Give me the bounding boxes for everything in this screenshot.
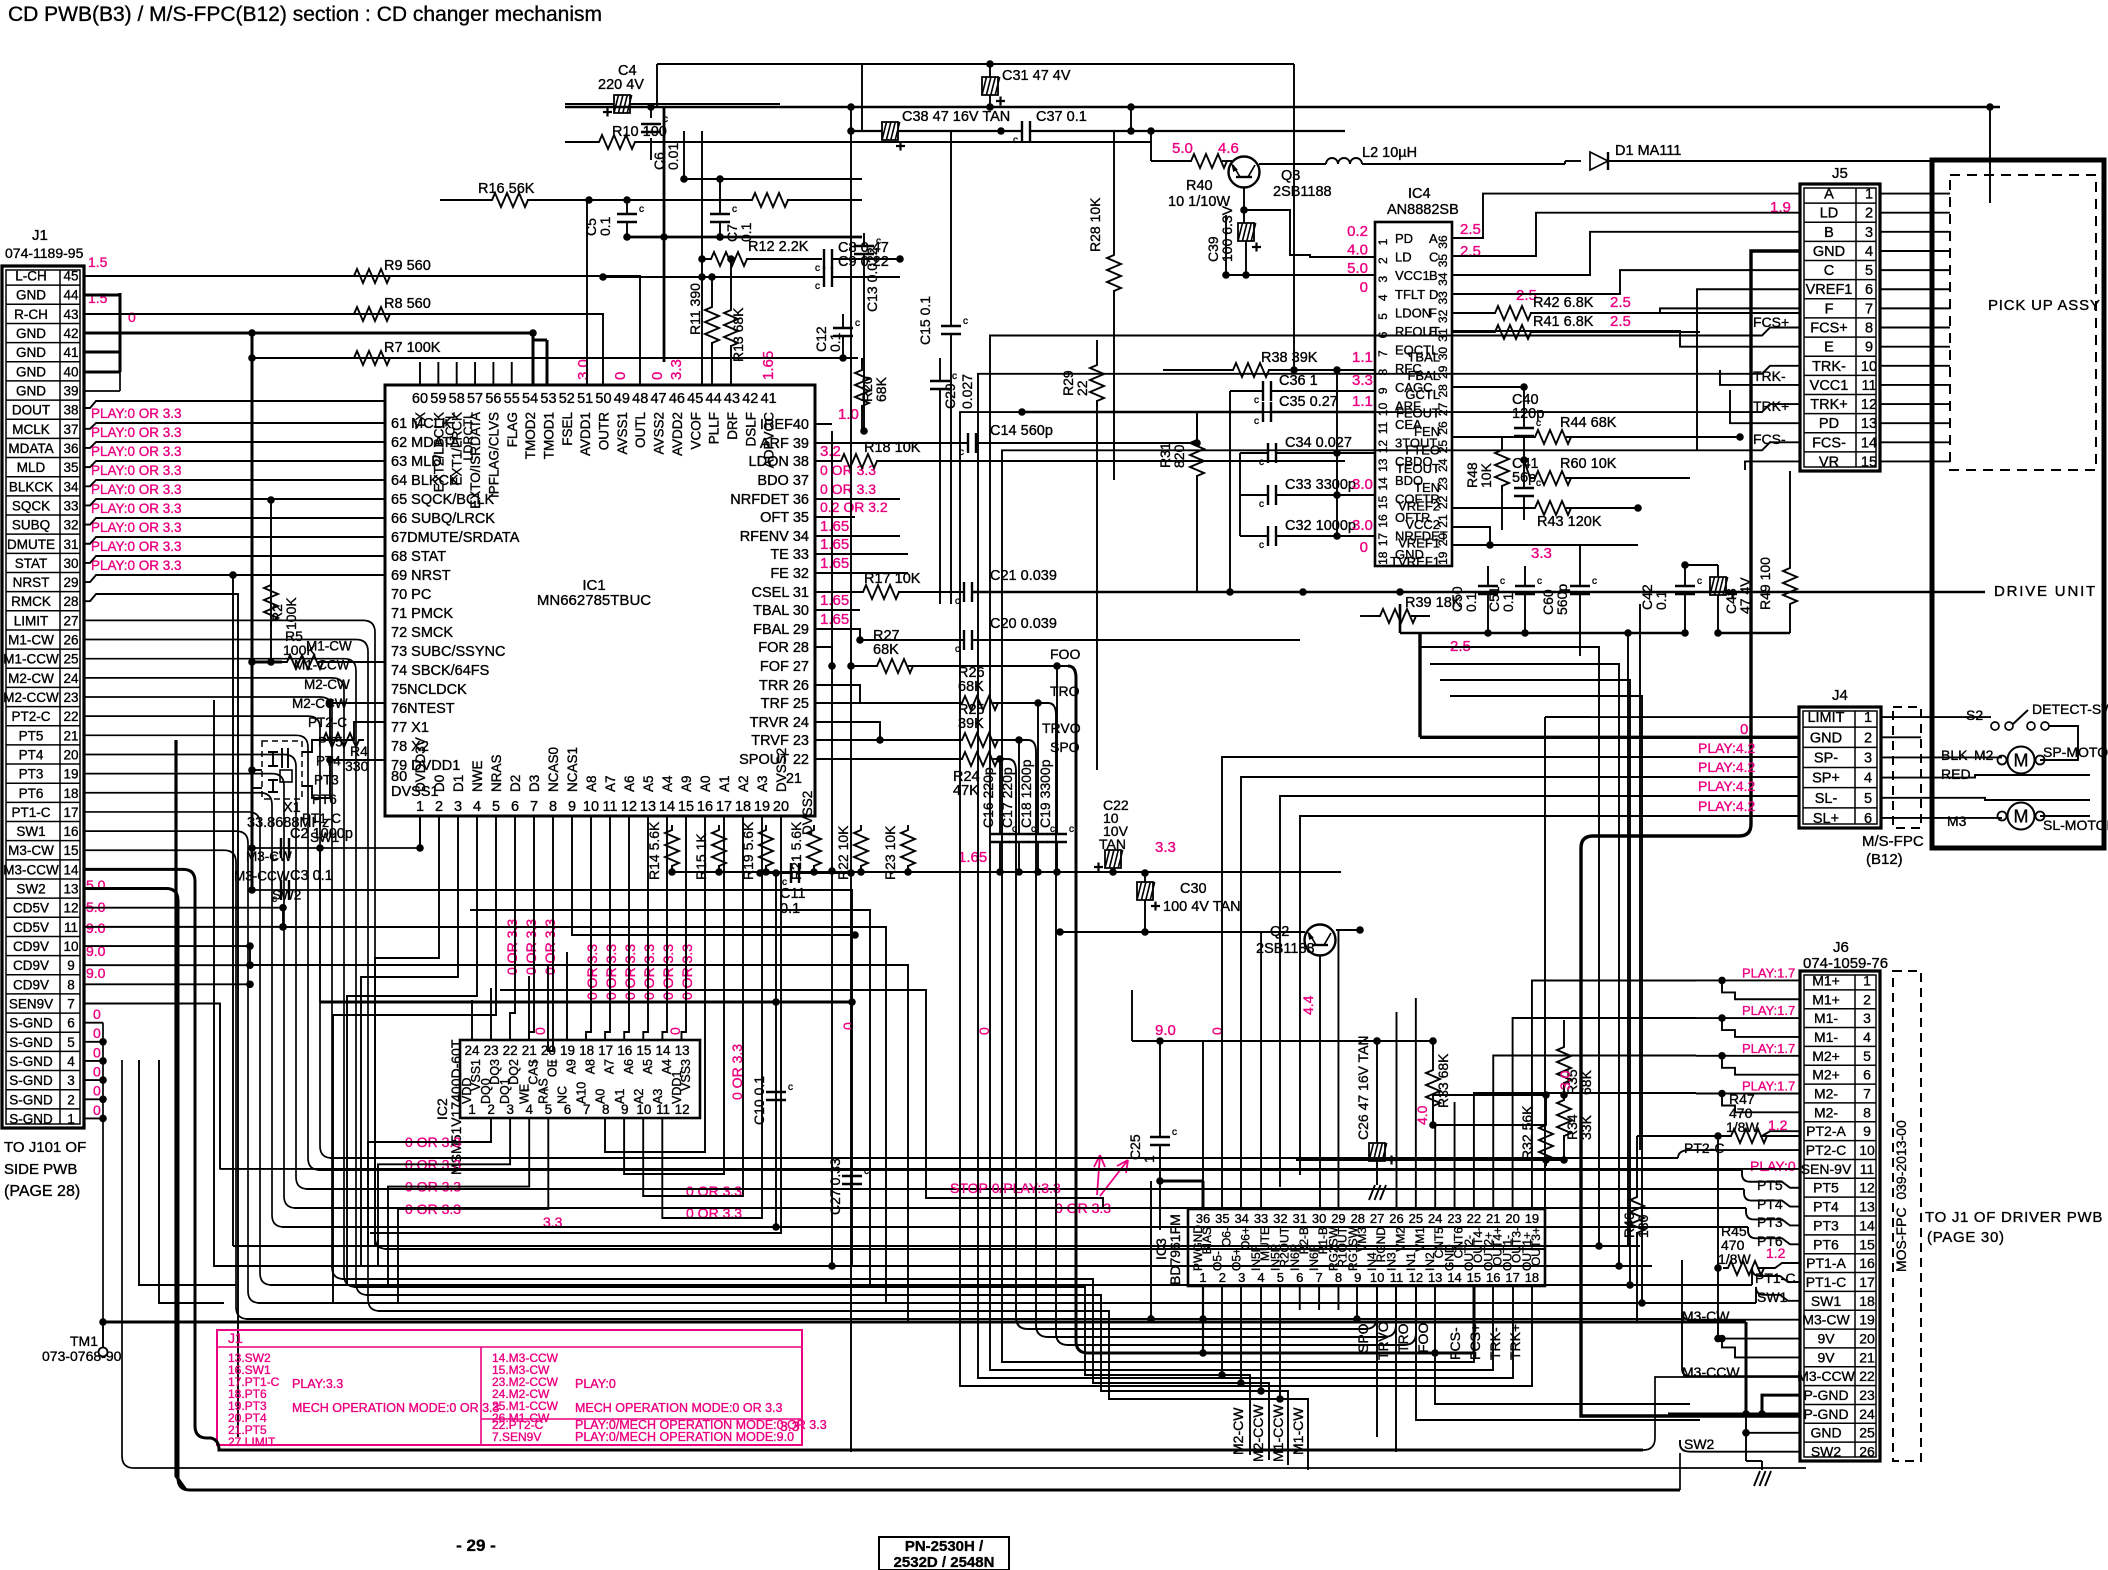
svg-text:c: c [639,204,644,215]
svg-text:SL-: SL- [1815,791,1838,807]
svg-text:4: 4 [1864,771,1872,787]
svg-text:12: 12 [1859,1180,1875,1196]
svg-text:1: 1 [1863,972,1871,988]
wires J1 power rows [84,907,283,909]
svg-text:17: 17 [598,1043,613,1058]
svg-text:50: 50 [595,391,611,407]
svg-text:C33 3300p: C33 3300p [1285,477,1356,493]
wire stair right2 [1430,664,1619,1266]
svg-text:WE: WE [517,1084,531,1104]
svg-text:19: 19 [560,1043,575,1058]
svg-text:O6-: O6- [1219,1227,1233,1247]
svg-text:4: 4 [1257,1270,1264,1285]
svg-text:SW1: SW1 [310,830,339,845]
svg-text:S-GND: S-GND [9,1111,53,1126]
svg-text:DOUT: DOUT [12,403,50,418]
svg-text:A9: A9 [679,775,694,792]
svg-text:C18 1200p: C18 1200p [1018,759,1034,828]
svg-text:PLAY:0: PLAY:0 [575,1377,616,1391]
svg-text:MECH OPERATION MODE:0 OR 3.3: MECH OPERATION MODE:0 OR 3.3 [575,1401,782,1415]
wire net LIMIT run [385,1248,1545,1250]
svg-text:18: 18 [63,786,78,801]
svg-text:SW1: SW1 [1811,1293,1842,1309]
svg-text:3: 3 [1376,276,1390,283]
IC U2 IC2 box [460,1040,700,1118]
svg-text:A5: A5 [641,775,656,792]
svg-text:R38 39K: R38 39K [1261,350,1318,366]
svg-text:CD5V: CD5V [13,901,49,916]
svg-text:0: 0 [840,1022,856,1030]
svg-text:0: 0 [1740,721,1748,738]
svg-text:68K: 68K [873,376,889,402]
wire J6 PGND23 [1762,1395,1800,1414]
wire R9 net [84,276,640,385]
svg-text:C21 0.039: C21 0.039 [990,568,1057,584]
wire J4 GND [1420,736,1799,739]
svg-text:44: 44 [706,391,722,407]
svg-text:M1-: M1- [1814,1029,1838,1045]
svg-text:49: 49 [614,391,630,407]
svg-text:0.027: 0.027 [959,374,975,409]
svg-text:3: 3 [67,1073,75,1088]
svg-text:39K: 39K [958,716,984,732]
svg-text:0: 0 [612,372,629,380]
wires IC1 data bus to IC2 [375,816,439,1246]
wire M3-CW to IC3 pin9 [1356,1286,1358,1319]
svg-text:R8 560: R8 560 [384,296,431,312]
svg-text:48: 48 [632,391,648,407]
svg-text:IC4: IC4 [1408,186,1431,202]
svg-text:C26 47 16V TAN: C26 47 16V TAN [1355,1035,1371,1140]
svg-text:26: 26 [63,633,78,648]
svg-text:R41 6.8K: R41 6.8K [1533,314,1594,330]
svg-text:LDRCTL: LDRCTL [462,412,476,461]
svg-text:0.2: 0.2 [1347,223,1368,240]
svg-text:NCAS0: NCAS0 [546,747,561,792]
svg-text:RFENV 34: RFENV 34 [740,529,809,545]
svg-text:OFT 35: OFT 35 [760,510,809,526]
svg-text:51: 51 [577,391,593,407]
svg-text:SL+: SL+ [1813,811,1839,827]
svg-text:IN2: IN2 [1423,1252,1437,1271]
svg-text:70 PC: 70 PC [391,587,431,603]
svg-text:9: 9 [1354,1270,1361,1285]
svg-text:F: F [1825,301,1834,317]
svg-text:4: 4 [1865,244,1873,260]
svg-text:21: 21 [1859,1349,1875,1365]
svg-text:J1: J1 [228,1330,243,1346]
wire corner y890 [320,890,852,1266]
svg-text:4.0: 4.0 [1347,242,1368,259]
svg-text:S-GND: S-GND [9,1016,53,1031]
svg-text:M/S-FPC: M/S-FPC [1862,833,1924,850]
svg-text:VM1: VM1 [1413,1227,1427,1252]
svg-text:36: 36 [1196,1211,1210,1226]
svg-text:21: 21 [1486,1211,1500,1226]
svg-text:FCS-: FCS- [1447,1327,1463,1360]
wire X1 pin77 [329,700,331,741]
svg-text:AVDD1: AVDD1 [578,412,593,456]
svg-text:68 STAT: 68 STAT [391,549,446,565]
svg-text:33: 33 [1436,291,1450,305]
wire R8 net [84,314,603,385]
svg-text:47: 47 [650,391,666,407]
svg-text:FE 32: FE 32 [770,566,809,582]
svg-text:c: c [1013,135,1018,146]
svg-text:M3-CW: M3-CW [1802,1312,1850,1328]
svg-text:24: 24 [1859,1406,1875,1422]
svg-text:M1-CW: M1-CW [1290,1407,1306,1455]
svg-text:1.65: 1.65 [820,555,849,572]
capacitor C6 0.01 [641,124,661,132]
svg-text:5: 5 [1376,313,1390,320]
wires IC1 addr bus [572,816,855,935]
svg-text:3: 3 [1865,225,1873,241]
svg-text:45: 45 [687,391,703,407]
wire v702 [701,131,703,385]
svg-text:M2+: M2+ [1812,1048,1840,1064]
svg-text:D0: D0 [432,775,447,792]
svg-text:- 29 -: - 29 - [456,1536,496,1555]
svg-text:TRK+: TRK+ [1810,397,1847,413]
svg-text:9: 9 [1863,1123,1871,1139]
svg-text:8: 8 [1863,1104,1871,1120]
svg-text:R39 18K: R39 18K [1405,595,1462,611]
svg-text:R11 390: R11 390 [687,283,703,335]
svg-text:VCC2: VCC2 [1405,517,1440,532]
svg-text:9: 9 [568,799,576,815]
svg-text:NRST: NRST [13,575,50,590]
wire v776 [775,873,777,1227]
svg-text:AVDD2: AVDD2 [670,412,685,456]
svg-text:A0: A0 [698,775,713,792]
svg-text:M1-: M1- [1814,1010,1838,1026]
wire net PT1-C run [270,1284,1752,1286]
svg-text:SEN-9V: SEN-9V [1801,1161,1852,1177]
svg-text:PT4: PT4 [1813,1199,1839,1215]
svg-text:44: 44 [63,288,79,303]
svg-text:C31 47 4V: C31 47 4V [1002,68,1071,84]
svg-text:PD: PD [1395,231,1413,246]
svg-text:11: 11 [1376,421,1390,434]
svg-text:41: 41 [63,345,78,360]
svg-text:68K: 68K [958,679,984,695]
svg-text:B: B [1824,225,1834,241]
svg-text:2.5: 2.5 [1610,313,1631,330]
svg-text:PLAY:0 OR 3.3: PLAY:0 OR 3.3 [91,520,182,535]
svg-text:TRVF 23: TRVF 23 [751,733,809,749]
svg-text:1: 1 [1199,1270,1206,1285]
svg-text:0.1: 0.1 [1463,592,1479,612]
svg-text:3.3: 3.3 [1155,839,1176,856]
svg-text:15: 15 [678,799,694,815]
svg-text:8: 8 [1865,321,1873,337]
svg-text:ARF 39: ARF 39 [760,436,809,452]
svg-text:IPFLAG/CLVS: IPFLAG/CLVS [486,412,501,498]
motor M3 SL-MOTOR [2008,803,2035,830]
svg-text:FOR 28: FOR 28 [758,640,809,656]
svg-text:35: 35 [63,460,78,475]
svg-text:7: 7 [1865,301,1873,317]
wires IC1 right stubs [815,498,900,500]
svg-text:C10 0.1: C10 0.1 [751,1076,767,1125]
wire 9v line [1131,990,1133,1041]
svg-text:VREF2: VREF2 [1398,498,1440,513]
svg-text:PT3: PT3 [19,767,44,782]
svg-text:M2-CW: M2-CW [8,671,54,686]
wire net FCS- [1002,442,1800,1362]
svg-text:C38 47 16V TAN: C38 47 16V TAN [902,109,1010,125]
svg-text:25: 25 [63,652,78,667]
svg-text:4.6: 4.6 [1218,140,1239,157]
wire corner y965 [250,965,908,1322]
svg-text:FSEL: FSEL [560,412,575,446]
svg-text:20: 20 [1505,1211,1519,1226]
wires IC3 top pins [1202,1041,1204,1209]
svg-text:4: 4 [67,1054,75,1069]
svg-text:S-GND: S-GND [9,1092,53,1107]
svg-text:60: 60 [412,391,428,407]
svg-text:9V: 9V [1817,1331,1835,1347]
svg-text:c: c [1592,576,1597,587]
wire v1628 [1627,633,1629,1246]
svg-text:SP+: SP+ [1812,771,1840,787]
svg-text:3: 3 [1863,1010,1871,1026]
svg-text:C19 3300p: C19 3300p [1037,759,1053,828]
svg-text:1: 1 [416,799,424,815]
svg-text:PLAY:0 OR 3.3: PLAY:0 OR 3.3 [91,406,182,421]
svg-text:SPOUT 22: SPOUT 22 [739,752,809,768]
svg-text:22: 22 [1074,380,1090,396]
svg-text:c: c [1697,576,1702,587]
svg-text:66 SUBQ/LRCK: 66 SUBQ/LRCK [391,511,495,527]
svg-text:TRR 26: TRR 26 [759,678,809,694]
wires IC3 bottom stubs [1299,1286,1301,1310]
svg-text:17: 17 [1859,1274,1875,1290]
svg-text:0 OR 3.3: 0 OR 3.3 [622,944,638,1000]
svg-text:Q3: Q3 [1281,168,1300,184]
svg-text:M1-CCW: M1-CCW [294,658,350,673]
svg-text:26: 26 [1859,1444,1875,1460]
svg-text:27: 27 [1436,402,1450,416]
svg-text:10K: 10K [1478,462,1494,488]
svg-text:9: 9 [1865,340,1873,356]
svg-text:CSEL 31: CSEL 31 [752,585,810,601]
wire net M1-CW run [378,1311,1308,1470]
svg-text:PT3: PT3 [1757,1214,1783,1230]
svg-text:M2-CW: M2-CW [1230,1407,1246,1455]
svg-text:c: c [1259,540,1264,551]
svg-text:PT2-C: PT2-C [1806,1142,1846,1158]
svg-text:c: c [876,236,881,247]
svg-text:A4: A4 [660,775,675,792]
svg-text:PLAY:0/MECH OPERATION MODE:9.0: PLAY:0/MECH OPERATION MODE:9.0 [575,1430,794,1444]
wire v851 [850,107,852,1452]
svg-text:15: 15 [1861,454,1877,470]
capacitor C2 1000p [252,847,420,849]
svg-text:100 6.3V: 100 6.3V [1219,205,1235,262]
svg-text:C16 220p: C16 220p [980,767,996,828]
wire bold 3.3 y1002 [320,1001,852,1004]
svg-text:FCS-: FCS- [1753,431,1786,447]
svg-text:7: 7 [1863,1086,1871,1102]
svg-text:1.65: 1.65 [820,518,849,535]
svg-text:PN-2530H /: PN-2530H / [905,1538,984,1555]
wire 1.65 bus [672,871,1341,873]
svg-text:SP-: SP- [1814,750,1838,766]
svg-text:24: 24 [63,671,79,686]
svg-text:14: 14 [63,862,79,877]
svg-text:3.0: 3.0 [1557,1070,1573,1090]
svg-text:M2: M2 [1974,747,1994,763]
svg-text:C36 1: C36 1 [1279,373,1318,389]
svg-text:0: 0 [1360,279,1368,296]
svg-text:TRF 25: TRF 25 [761,696,809,712]
wire corner y927 [283,927,886,1303]
wire net SPO [1008,759,1377,1329]
wire net PT4 run [306,1188,1744,1190]
svg-text:2: 2 [67,1092,75,1107]
svg-text:19: 19 [63,767,78,782]
wire net M3-CW run [246,1318,1682,1320]
svg-text:M2-CCW: M2-CCW [3,690,59,705]
svg-text:PT1-C: PT1-C [1806,1274,1846,1290]
svg-text:c: c [788,1082,793,1093]
svg-text:FCS+: FCS+ [1810,321,1847,337]
svg-text:TE 33: TE 33 [770,547,809,563]
svg-text:OUTR: OUTR [597,412,612,450]
svg-text:R16 56K: R16 56K [478,181,535,197]
svg-text:TRK-: TRK- [1487,1327,1503,1360]
svg-text:4: 4 [473,799,481,815]
wire left stair4 [159,1060,224,1303]
svg-text:0 OR 3.3: 0 OR 3.3 [641,944,657,1000]
drive unit box [1932,160,2104,848]
diode D1 MA111 [1590,152,1608,170]
wire J5 PD [1730,390,1800,423]
IC U1 IC1 box [385,385,815,816]
svg-text:18: 18 [1525,1270,1539,1285]
svg-text:J6: J6 [1833,939,1849,956]
svg-text:PT2-A: PT2-A [1806,1123,1846,1139]
wire bold y237 [627,236,862,239]
svg-text:A1: A1 [717,775,732,792]
svg-text:DRF: DRF [725,412,740,440]
svg-text:PT4: PT4 [19,747,44,762]
svg-text:C13 0.022: C13 0.022 [864,247,880,312]
svg-text:1.65: 1.65 [820,592,849,609]
svg-text:PT3: PT3 [314,773,339,788]
svg-text:SW2: SW2 [1811,1444,1842,1460]
svg-text:S-GND: S-GND [9,1035,53,1050]
IC U3 IC3 box [1188,1209,1545,1286]
svg-text:M1+: M1+ [1812,991,1840,1007]
svg-text:c: c [952,371,957,382]
svg-text:12: 12 [1409,1270,1423,1285]
svg-text:C34 0.027: C34 0.027 [1285,435,1352,451]
svg-text:IN3: IN3 [1385,1252,1399,1271]
svg-text:1.65: 1.65 [958,849,987,866]
svg-text:P-GND: P-GND [1803,1406,1848,1422]
svg-text:C14 560p: C14 560p [990,423,1053,439]
svg-text:21: 21 [786,771,802,787]
svg-text:A7: A7 [603,1059,617,1074]
motor M2 SP-MOTOR [2008,747,2035,774]
svg-text:SW2: SW2 [272,888,301,903]
svg-text:c: c [1254,416,1259,427]
svg-text:S2: S2 [1966,707,1983,723]
svg-text:C35 0.27: C35 0.27 [1279,394,1338,410]
svg-text:c: c [1069,824,1074,835]
svg-text:4.4: 4.4 [1300,995,1316,1015]
svg-text:23: 23 [63,690,78,705]
svg-text:63 MLD: 63 MLD [391,454,442,470]
svg-text:33: 33 [1254,1211,1268,1226]
svg-text:22: 22 [1467,1211,1481,1226]
svg-text:9.0: 9.0 [86,965,106,981]
svg-text:15: 15 [1467,1270,1481,1285]
svg-text:100K: 100K [283,597,299,630]
svg-text:C37 0.1: C37 0.1 [1036,109,1087,125]
svg-text:STAT: STAT [15,556,48,571]
svg-text:24: 24 [1428,1211,1442,1226]
svg-text:c: c [1500,576,1505,587]
svg-text:SEN9V: SEN9V [9,996,53,1011]
wire J5 VR [1745,461,1800,470]
svg-text:8: 8 [549,799,557,815]
svg-text:M2-: M2- [1814,1086,1838,1102]
svg-text:1: 1 [1865,187,1873,203]
svg-text:VREF1: VREF1 [1806,282,1853,298]
svg-text:19: 19 [1859,1312,1875,1328]
svg-text:45: 45 [63,269,78,284]
svg-text:37: 37 [63,422,78,437]
svg-text:c: c [855,318,860,329]
svg-text:43: 43 [724,391,740,407]
wire v862 [861,64,863,131]
wire vref line [1452,527,1490,545]
svg-text:M1+: M1+ [1812,972,1840,988]
svg-text:IN1: IN1 [1404,1252,1418,1271]
svg-text:MSM51V17400D-60T: MSM51V17400D-60T [448,1039,464,1175]
svg-text:AVSS1: AVSS1 [615,412,630,455]
svg-text:c: c [1259,457,1264,468]
svg-text:R28 10K: R28 10K [1087,197,1103,252]
wire bold gnd bus [103,1321,1746,1324]
svg-text:D1 MA111: D1 MA111 [1615,143,1681,159]
svg-text:S-GND: S-GND [9,1073,53,1088]
svg-text:TRK-: TRK- [1812,359,1846,375]
svg-text:PLAY:0 OR 3.3: PLAY:0 OR 3.3 [91,539,182,554]
svg-text:9: 9 [67,958,75,973]
svg-text:TO J101 OF: TO J101 OF [4,1139,86,1156]
svg-text:21: 21 [63,728,78,743]
resistor R5 100K [282,655,328,669]
svg-text:C30: C30 [1180,881,1207,897]
svg-text:23: 23 [1447,1211,1461,1226]
svg-text:PICK UP ASSY: PICK UP ASSY [1988,297,2101,314]
svg-text:71 PMCK: 71 PMCK [391,606,453,622]
svg-text:5.0: 5.0 [86,877,106,893]
svg-text:10: 10 [1861,359,1877,375]
svg-text:0.1: 0.1 [1500,592,1516,612]
svg-text:55: 55 [504,391,520,407]
wire net PT2-C run [330,1157,1678,1159]
svg-text:15: 15 [63,843,78,858]
svg-text:6: 6 [511,799,519,815]
wire J5 A [1452,194,1800,238]
svg-text:IREF40: IREF40 [760,417,809,433]
